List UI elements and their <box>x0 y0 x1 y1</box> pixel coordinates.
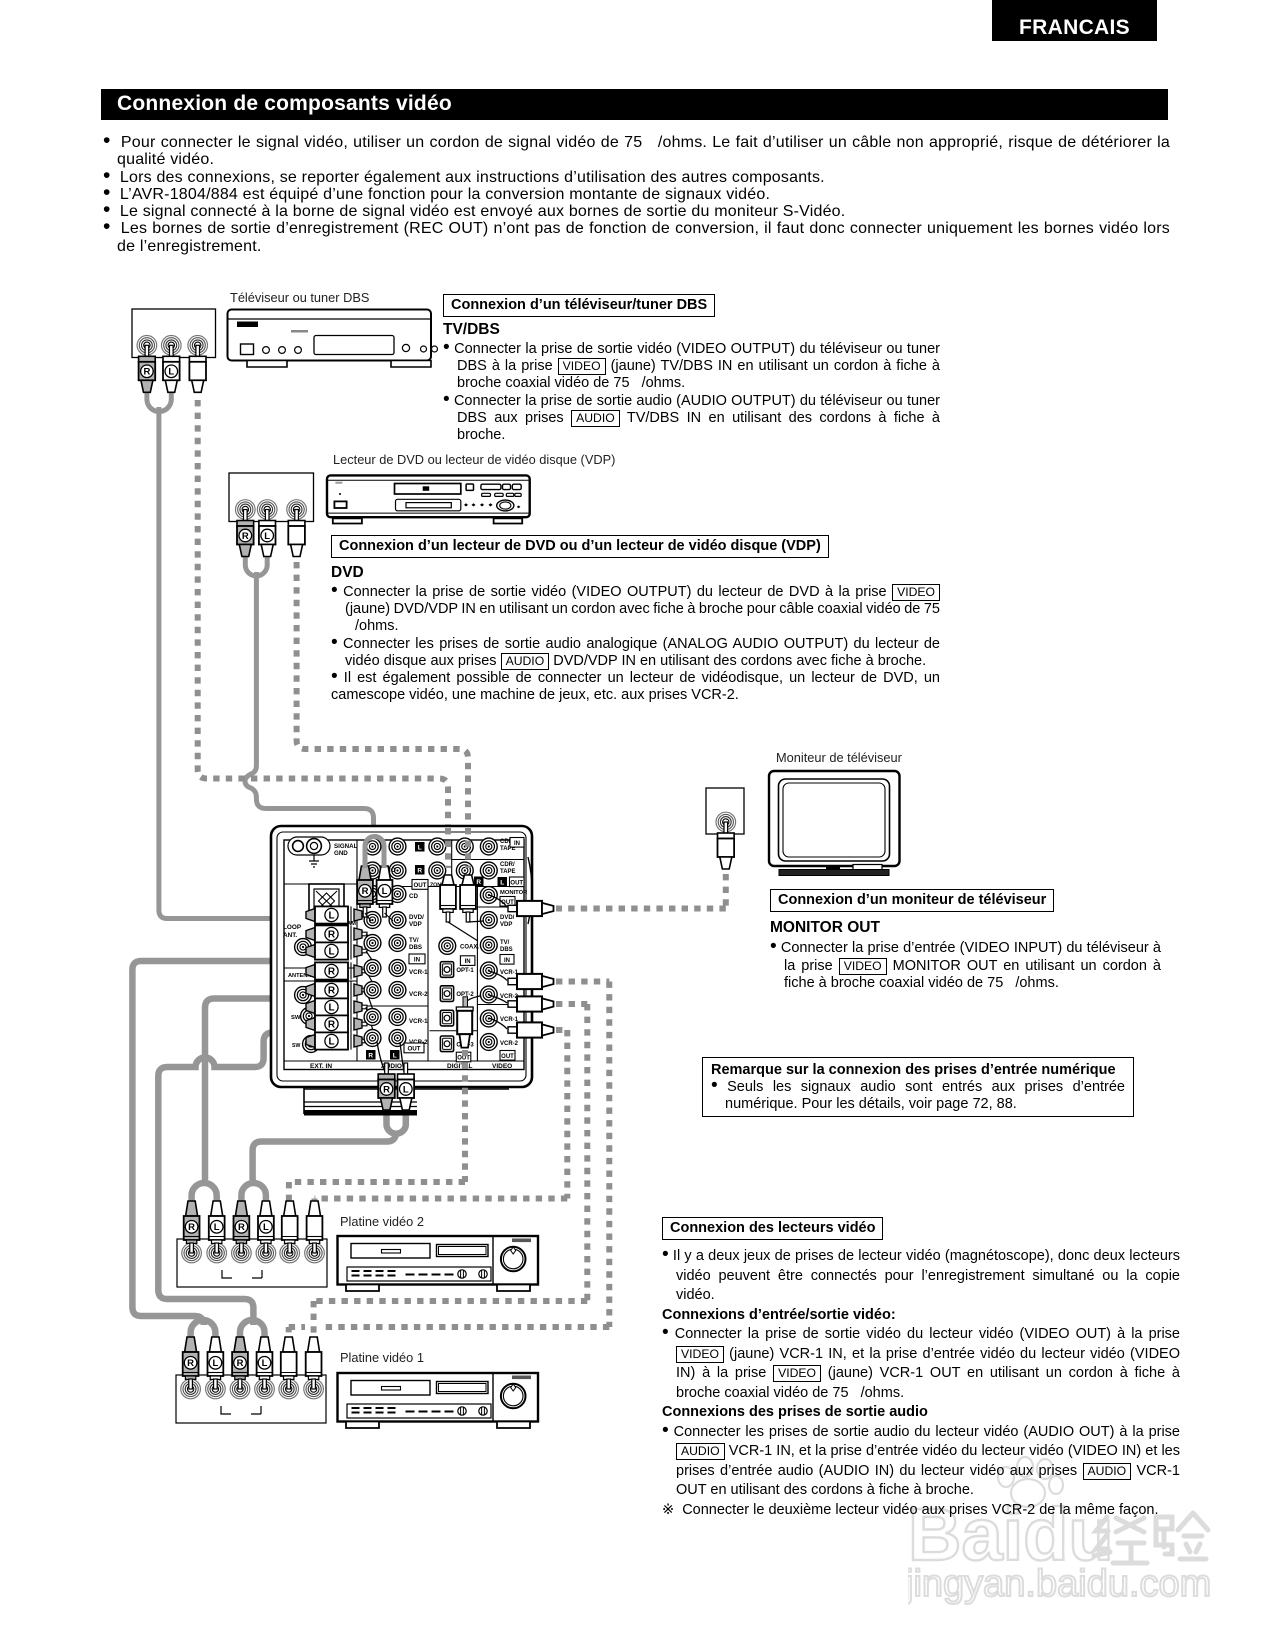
svg-text:R: R <box>417 868 422 875</box>
FRANCAIS header box <box>992 0 1157 41</box>
svg-text:L: L <box>168 367 174 378</box>
wire DVD-audio tail <box>245 572 374 843</box>
wire TV-audio tail <box>159 407 290 919</box>
svg-text:TV/: TV/ <box>409 937 419 944</box>
svg-text:L: L <box>418 845 422 852</box>
wire VCR2-audio-out cable <box>387 1112 406 1134</box>
svg-text:SW: SW <box>291 1015 301 1021</box>
VCR-1 OUT plug <box>489 1018 507 1029</box>
SIGNAL GND terminal <box>288 837 358 867</box>
svg-text:OUT: OUT <box>407 1046 420 1053</box>
receiver left input plug stack <box>306 906 367 923</box>
wire VCR1-video-in dashed <box>556 979 609 985</box>
svg-text:OPT-1: OPT-1 <box>456 968 474 974</box>
svg-text:L: L <box>214 1222 220 1233</box>
monitor plug <box>718 822 735 869</box>
wire DVD-video dashed <box>297 562 468 868</box>
svg-text:R: R <box>328 930 336 941</box>
wire VCR2-audio-in cable <box>205 999 295 1181</box>
device: AVR receiver rear panel <box>271 826 532 1087</box>
svg-text:DIGITAL: DIGITAL <box>447 1063 473 1070</box>
receiver bottom chassis <box>304 1087 509 1116</box>
svg-text:L: L <box>263 1222 269 1233</box>
wire DVD-audio U loop at receiver top <box>365 837 384 868</box>
wire VCR1-video-out dashed <box>556 1027 567 1033</box>
svg-text:IN: IN <box>514 841 520 847</box>
VCR-2 OUT R/L plugs below receiver <box>377 1042 404 1072</box>
svg-text:VCR-2: VCR-2 <box>500 994 519 1000</box>
svg-text:R: R <box>328 986 336 997</box>
wire VCR1-audio-out cable <box>158 1033 295 1326</box>
svg-text:R: R <box>328 967 336 978</box>
svg-text:L: L <box>328 1003 334 1014</box>
watermark <box>908 1455 1268 1635</box>
OPT-3 plug <box>466 995 489 1003</box>
svg-text:VCR-1: VCR-1 <box>409 1018 428 1025</box>
svg-text:R: R <box>383 1084 390 1095</box>
black title bar <box>101 89 1168 120</box>
svg-text:L: L <box>382 886 388 897</box>
svg-text:COAX.: COAX. <box>460 945 479 951</box>
section: MONITOR OUT <box>770 889 1054 912</box>
device labels <box>230 290 369 305</box>
DIGITAL section <box>439 938 456 955</box>
svg-text:L: L <box>500 880 504 887</box>
wire VCR1-audio-in cable <box>132 961 295 1325</box>
svg-text:VDP: VDP <box>500 922 512 928</box>
svg-text:R: R <box>328 1020 336 1031</box>
platine1 plugs <box>183 1337 199 1389</box>
svg-text:R: R <box>362 886 369 897</box>
svg-text:L: L <box>393 1053 397 1060</box>
svg-text:DBS: DBS <box>500 947 513 953</box>
svg-text:TV/: TV/ <box>500 940 510 946</box>
svg-text:R: R <box>238 1222 245 1233</box>
svg-text:VCR-1: VCR-1 <box>500 1017 519 1023</box>
section: TV/DBS <box>443 294 715 317</box>
platine2 jack panel <box>177 1239 327 1287</box>
svg-text:jingyan.baidu.com: jingyan.baidu.com <box>908 1563 1211 1605</box>
DVD jack panel <box>229 473 314 522</box>
svg-text:R: R <box>368 1053 373 1060</box>
svg-text:OUT: OUT <box>510 880 523 886</box>
svg-text:LOOP: LOOP <box>283 924 302 931</box>
section: DVD <box>331 535 829 558</box>
VCR-2 IN plug <box>489 995 507 1003</box>
monitor jack box <box>706 788 744 834</box>
svg-text:VCR-2: VCR-2 <box>409 991 428 998</box>
svg-text:OUT: OUT <box>501 1054 514 1060</box>
svg-text:TAPE: TAPE <box>500 869 516 875</box>
MONITOR OUT plug <box>489 895 507 908</box>
svg-text:SW: SW <box>292 1043 300 1049</box>
svg-text:DVD/: DVD/ <box>500 915 515 921</box>
svg-text:EXT. IN: EXT. IN <box>310 1063 332 1070</box>
svg-text:L: L <box>328 947 334 958</box>
wire TV-video dashed (into receiver) <box>445 828 451 868</box>
section: lecteurs video <box>662 1217 883 1240</box>
remarque box <box>702 1057 1134 1117</box>
svg-text:R: R <box>143 367 150 378</box>
platine2 plugs <box>184 1201 200 1253</box>
device: Platine vidéo 2 <box>338 1236 539 1291</box>
svg-text:R: R <box>237 1358 244 1369</box>
svg-text:OUT: OUT <box>413 882 426 889</box>
svg-text:SIGNAL: SIGNAL <box>334 843 358 850</box>
svg-text:DBS: DBS <box>409 944 422 951</box>
VCR-1 IN plug <box>489 971 507 981</box>
wire TV-video dashed <box>198 400 448 868</box>
TV plugs R L video <box>139 345 156 392</box>
svg-text:R: R <box>242 531 249 542</box>
svg-text:CD: CD <box>409 893 418 900</box>
svg-text:L: L <box>328 911 334 922</box>
svg-text:VCR-1: VCR-1 <box>409 969 428 976</box>
svg-text:IN: IN <box>414 957 421 964</box>
LOOP ANT terminal <box>283 884 357 981</box>
wire VCR2-video-in dashed <box>556 1001 587 1007</box>
wire OPT3 digital dashed <box>462 1050 468 1182</box>
svg-text:VDP: VDP <box>409 921 422 928</box>
svg-text:R: R <box>476 879 481 886</box>
top bullet list <box>103 134 1170 255</box>
svg-text:L: L <box>212 1358 218 1369</box>
svg-text:MONITOR: MONITOR <box>500 890 528 896</box>
device: Moniteur de téléviseur <box>769 771 900 876</box>
wire DVD-video dashed (into receiver) <box>465 828 471 868</box>
DVD plugs R L video <box>237 510 254 557</box>
svg-text:L: L <box>403 1084 409 1095</box>
svg-text:IN: IN <box>465 959 471 965</box>
svg-text:L: L <box>262 1358 268 1369</box>
svg-text:VCR-1: VCR-1 <box>500 970 519 976</box>
receiver top video plugs (dashed cables) <box>440 875 456 922</box>
AUDIO jack grid <box>364 886 381 903</box>
svg-text:VIDEO: VIDEO <box>492 1063 512 1070</box>
svg-text:ANT.: ANT. <box>283 932 297 939</box>
svg-text:R: R <box>188 1222 195 1233</box>
svg-text:OUT: OUT <box>457 1056 470 1062</box>
svg-text:DVD/: DVD/ <box>409 914 424 921</box>
TV jack panel <box>132 309 216 358</box>
device: Téléviseur ou tuner DBS <box>228 310 438 368</box>
SW pre-out jacks <box>295 939 312 956</box>
wire MONITOR-OUT dashed <box>723 874 729 909</box>
svg-text:CDR/: CDR/ <box>500 862 515 868</box>
device: Lecteur de DVD <box>327 475 530 523</box>
svg-text:L: L <box>264 531 270 542</box>
svg-text:VCR-2: VCR-2 <box>500 1041 519 1047</box>
platine1 jack panel <box>176 1375 326 1423</box>
svg-text:L: L <box>328 1037 334 1048</box>
svg-text:R: R <box>187 1358 194 1369</box>
svg-text:IN: IN <box>504 958 510 964</box>
VIDEO jack column <box>480 887 497 904</box>
device: Platine vidéo 1 <box>338 1373 539 1428</box>
svg-text:GND: GND <box>334 850 348 857</box>
